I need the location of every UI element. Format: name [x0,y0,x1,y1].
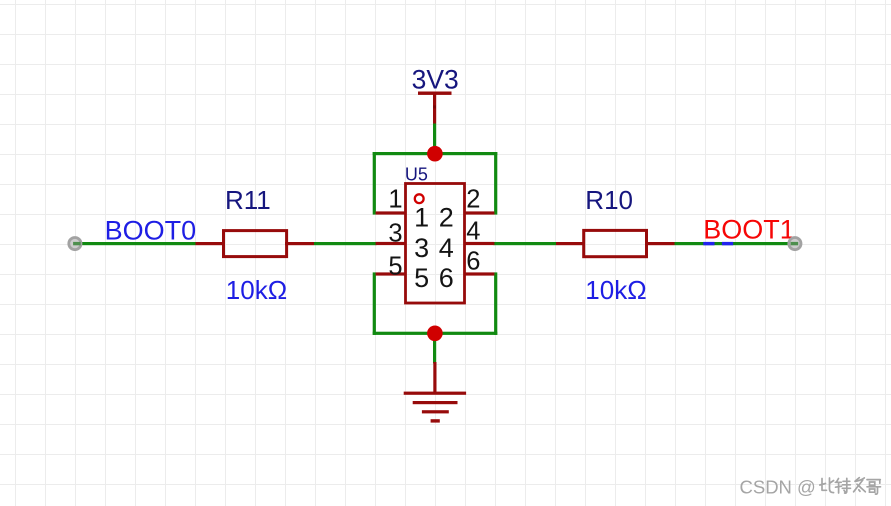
U5 pad number 3 (inside) [414,233,429,263]
svg-text:U5: U5 [405,164,428,184]
ground symbol [404,362,466,423]
svg-text:10kΩ: 10kΩ [585,275,646,305]
port pin BOOT0 (left connector dot) [69,238,81,250]
svg-text:6: 6 [466,248,480,276]
svg-text:6: 6 [439,263,454,293]
net label BOOT1 (selected, red) [703,215,795,245]
resistor R10 body and leads [556,230,675,256]
wire left vertical from pin 5 [373,272,376,335]
U5 pin number 5 (outside) [388,252,402,280]
wire bottom junction down to ground [433,332,436,363]
svg-text:3V3: 3V3 [412,64,459,94]
svg-text:4: 4 [439,233,454,263]
wire BOOT0 net: port to R11 [80,242,196,245]
svg-text:5: 5 [414,263,429,293]
value 10kΩ (R10) [585,275,646,305]
svg-text:3: 3 [414,233,429,263]
U5 pad number 1 (inside) [414,203,429,233]
U5 pad number 6 (inside) [439,263,454,293]
net label BOOT0 [105,216,197,246]
wire top bus (3V3 to pins 1,2) horizontal [373,152,498,155]
svg-text:10kΩ: 10kΩ [226,275,287,305]
U5 pin number 4 (outside) [466,217,480,245]
svg-text:2: 2 [439,203,454,233]
label R11 [225,185,271,215]
junction dot top (3V3 bus) [427,146,443,162]
wire U5 pin 4 to R10 [494,242,557,245]
U5 pin 6 stub [465,272,495,275]
value 10kΩ (R11) [226,275,287,305]
U5 pin 1 stub [376,211,406,214]
U5 pin number 1 (outside) [388,185,402,213]
svg-text:BOOT1: BOOT1 [703,215,795,245]
svg-text:2: 2 [466,186,480,214]
port pin BOOT1 (right connector dot) [789,238,801,250]
U5 pin number 3 (outside) [388,219,402,247]
svg-text:CSDN @: CSDN @ [740,477,816,498]
svg-text:BOOT0: BOOT0 [105,216,197,246]
net label 3V3 [412,64,459,94]
svg-text:1: 1 [388,185,402,213]
U5 pin 3 stub [376,242,406,245]
svg-text:3: 3 [388,219,402,247]
wire 3V3 down to top junction [433,124,436,156]
U5 pin 1 polarity ring [415,194,424,203]
svg-text:1: 1 [414,203,429,233]
power symbol 3V3 (bar + stem) [418,92,452,124]
junction dot bottom (ground bus) [427,326,443,342]
U5 designator label [405,164,428,184]
watermark CSDN @比特冬哥 [740,477,881,498]
svg-text:5: 5 [388,252,402,280]
wire BOOT1 net: R10 to port [675,242,794,245]
svg-text:R10: R10 [585,185,633,215]
svg-text:R11: R11 [225,185,271,215]
wire right vertical from pin 6 [494,272,497,335]
wire right vertical to pin 2 [494,152,497,215]
wire bottom bus (pins 5,6 to ground) horizontal [373,332,498,335]
wire R11 to U5 pin 3 [314,242,377,245]
connector U5 body [406,184,465,304]
label R10 [585,185,633,215]
U5 pin number 6 (outside) [466,248,480,276]
U5 pin 4 stub [465,242,495,245]
U5 pad number 2 (inside) [439,203,454,233]
U5 pin 5 stub [376,272,406,275]
U5 pad number 5 (inside) [414,263,429,293]
U5 pin 2 stub [465,211,495,214]
svg-text:4: 4 [466,217,480,245]
resistor R11 body and leads [196,231,315,257]
selection dashes on BOOT1 wire [703,242,733,245]
U5 pin number 2 (outside) [466,186,480,214]
wire left vertical to pin 1 [373,152,376,215]
U5 pad number 4 (inside) [439,233,454,263]
